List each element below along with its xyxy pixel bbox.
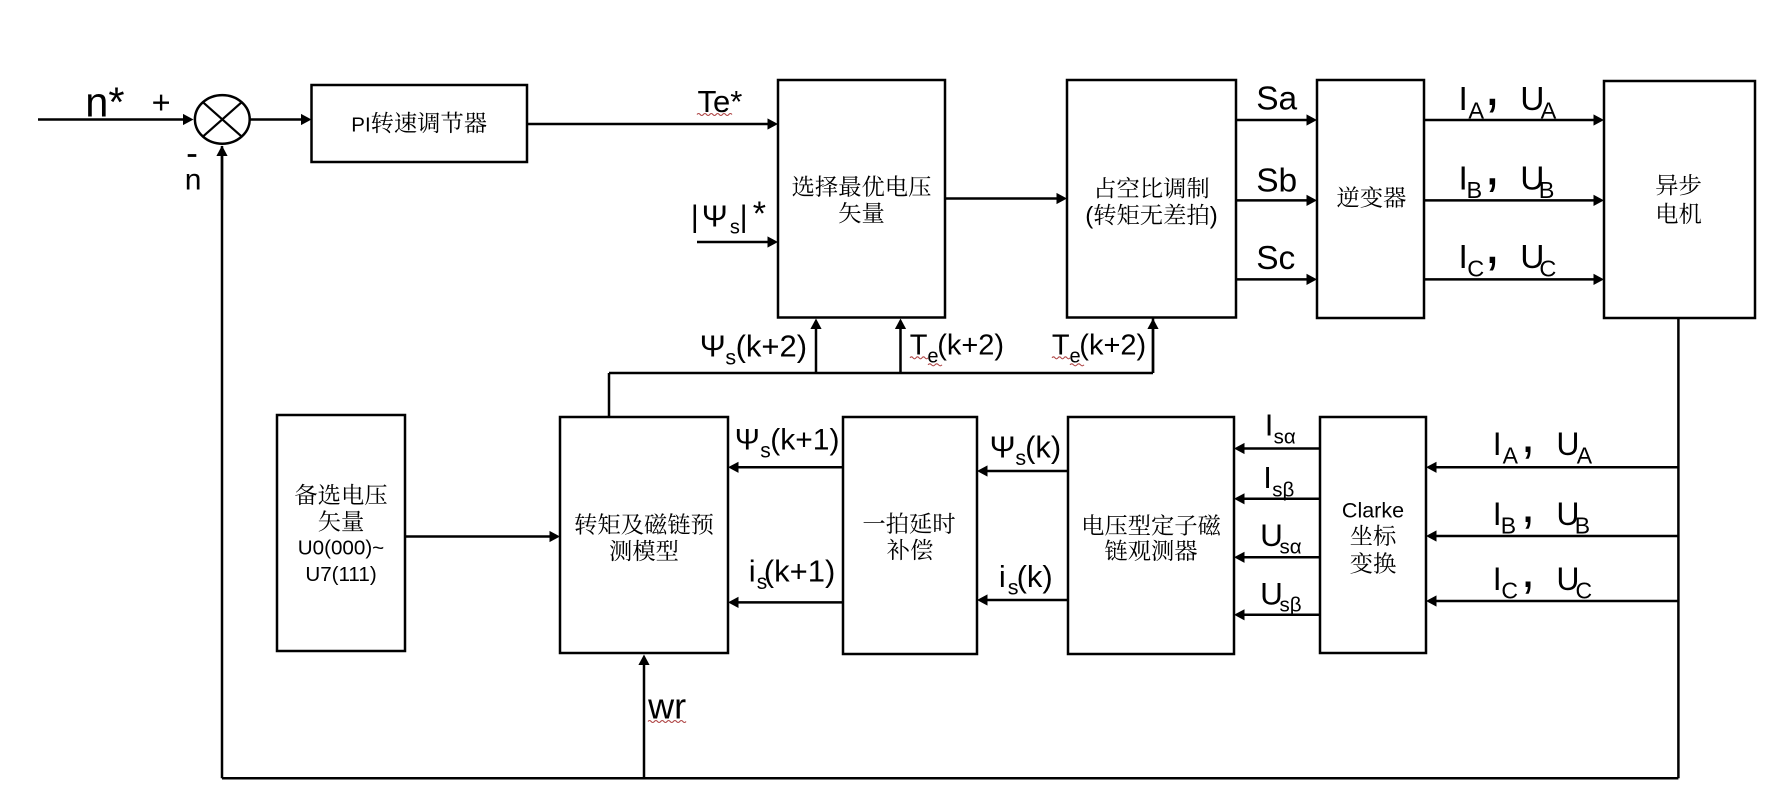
svg-text:C: C [1501, 578, 1518, 604]
svg-text:sα: sα [1274, 426, 1296, 449]
svg-text:|: | [691, 199, 699, 234]
svg-text:s: s [760, 440, 771, 463]
svg-text:A: A [1503, 443, 1519, 469]
svg-text:I: I [1265, 407, 1274, 442]
svg-text:Clarke: Clarke [1342, 499, 1404, 523]
svg-text:Sb: Sb [1256, 163, 1297, 200]
svg-text:B: B [1539, 177, 1555, 203]
svg-text:(: ( [1085, 202, 1093, 229]
svg-text:C: C [1467, 255, 1484, 281]
svg-text:): ) [1210, 202, 1218, 229]
svg-text:,: , [1484, 132, 1500, 197]
svg-text:I: I [1493, 426, 1502, 462]
svg-text:Sa: Sa [1256, 80, 1297, 117]
svg-text:B: B [1501, 513, 1516, 539]
svg-text:U0(000)~: U0(000)~ [298, 537, 384, 560]
svg-text:n: n [185, 164, 202, 197]
svg-text:A: A [1541, 98, 1557, 124]
svg-text:I: I [1263, 460, 1272, 495]
svg-text:(k): (k) [1025, 430, 1061, 465]
svg-text:Ψ: Ψ [700, 329, 726, 364]
svg-text:(k+2): (k+2) [736, 329, 808, 364]
svg-text:sα: sα [1280, 536, 1302, 559]
svg-text:i: i [999, 559, 1006, 594]
svg-text:*: * [753, 195, 766, 233]
svg-text:|: | [740, 199, 748, 234]
svg-text:sβ: sβ [1280, 594, 1302, 617]
svg-text:A: A [1468, 98, 1484, 124]
svg-text:(k+2): (k+2) [937, 330, 1004, 362]
svg-text:A: A [1577, 443, 1593, 469]
svg-text:(k): (k) [1017, 559, 1053, 594]
svg-text:Ψ: Ψ [735, 424, 760, 457]
svg-text:Ψ: Ψ [990, 430, 1016, 465]
svg-text:s: s [730, 217, 740, 239]
svg-text:sβ: sβ [1272, 478, 1294, 501]
svg-text:I: I [1493, 561, 1502, 597]
svg-text:PI: PI [351, 113, 370, 136]
svg-text:C: C [1539, 255, 1556, 281]
svg-text:,: , [1521, 476, 1535, 534]
svg-text:B: B [1467, 177, 1483, 203]
svg-text:n*: n* [85, 79, 124, 126]
svg-text:(k+2): (k+2) [1079, 330, 1146, 362]
svg-text:,: , [1484, 53, 1500, 118]
svg-text:,: , [1521, 541, 1535, 599]
svg-text:(k+1): (k+1) [770, 424, 839, 457]
svg-text:I: I [1459, 81, 1468, 118]
svg-text:(k+1): (k+1) [764, 554, 836, 589]
svg-text:Ψ: Ψ [702, 199, 728, 234]
svg-text:,: , [1521, 406, 1535, 464]
svg-text:C: C [1576, 578, 1593, 604]
svg-text:+: + [152, 84, 171, 120]
svg-text:B: B [1575, 513, 1590, 539]
svg-text:U7(111): U7(111) [305, 563, 376, 586]
svg-text:i: i [749, 554, 756, 589]
svg-text:,: , [1484, 211, 1500, 276]
svg-text:Sc: Sc [1256, 240, 1295, 277]
svg-text:s: s [725, 346, 736, 370]
